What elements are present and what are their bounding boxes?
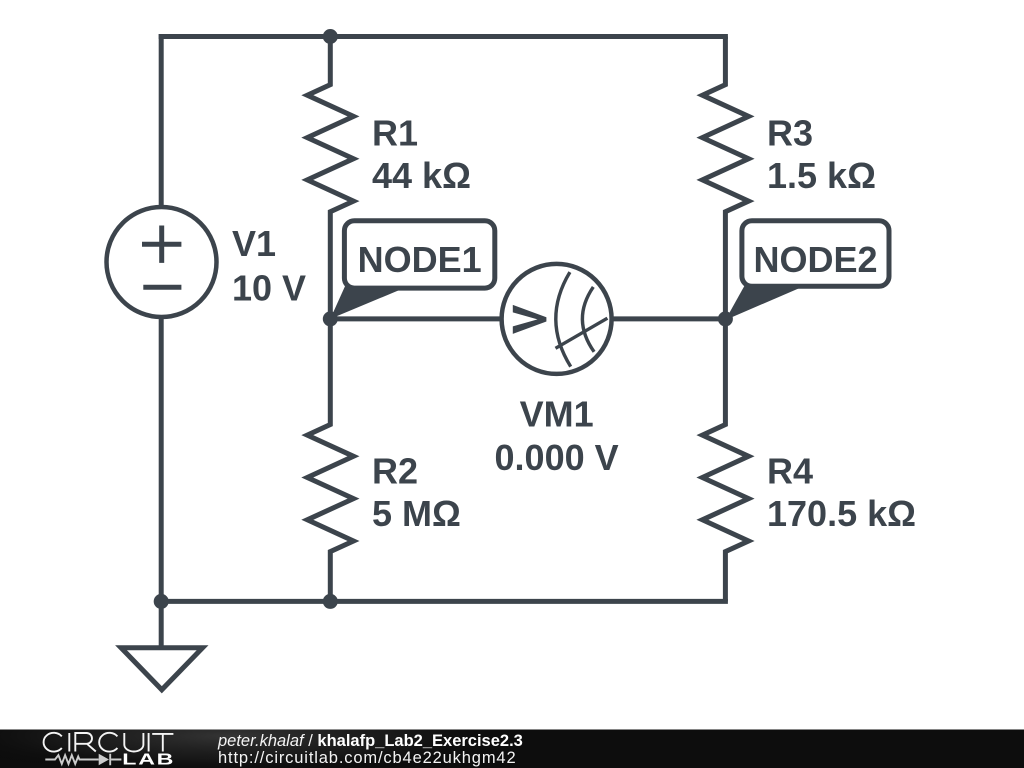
logo resistor-diode doodle — [45, 754, 121, 765]
svg-text:0.000 V: 0.000 V — [495, 437, 619, 478]
V1 minus mark — [143, 285, 181, 290]
VM1 meter needle — [556, 318, 608, 348]
junction dot bottom left — [154, 594, 169, 609]
resistor R1 — [307, 37, 353, 319]
junction dot node2 — [718, 311, 733, 326]
wire bottom rail — [161, 599, 725, 604]
resistor R4 — [702, 319, 748, 602]
resistor R3 — [702, 37, 748, 319]
svg-text:5 MΩ: 5 MΩ — [372, 493, 461, 534]
svg-text:VM1: VM1 — [520, 394, 594, 435]
wire left rail lower — [159, 319, 164, 602]
VM1 meter arc large — [556, 272, 571, 367]
VM1 body circle — [502, 264, 612, 374]
junction dot top — [323, 29, 338, 44]
V1 body circle — [107, 207, 217, 317]
CircuitLab logo word CIRCUIT (hand-drawn thin letters) — [44, 733, 174, 752]
node NODE1 balloon box — [344, 221, 494, 288]
footer bar — [0, 730, 1024, 768]
svg-text:1.5 kΩ: 1.5 kΩ — [767, 155, 876, 196]
VM1 meter arc small — [582, 287, 594, 352]
svg-text:170.5 kΩ: 170.5 kΩ — [767, 493, 916, 534]
wire left rail upper — [159, 37, 164, 206]
node NODE1 balloon — [330, 221, 495, 319]
svg-text:NODE2: NODE2 — [753, 239, 877, 280]
svg-text:R4: R4 — [767, 451, 813, 492]
V1 plus mark — [142, 226, 181, 263]
voltmeter VM1 — [502, 264, 612, 374]
VM1 chevron mark — [513, 305, 547, 334]
wire top rail — [161, 34, 725, 39]
ground stub wire — [159, 601, 164, 647]
resistor R2 — [307, 319, 353, 602]
svg-text:R2: R2 — [372, 451, 418, 492]
ground triangle — [121, 648, 203, 690]
node NODE2 balloon — [725, 221, 889, 320]
wire node1 to voltmeter — [330, 316, 500, 321]
svg-text:peter.khalaf / khalafp_Lab2_Ex: peter.khalaf / khalafp_Lab2_Exercise2.3 — [217, 732, 523, 750]
node NODE2 balloon box — [742, 221, 889, 287]
node NODE1 balloon tail — [330, 284, 409, 319]
svg-text:http://circuitlab.com/cb4e22uk: http://circuitlab.com/cb4e22ukhgm42 — [218, 749, 516, 767]
junction dot bottom R2 — [323, 594, 338, 609]
ground — [121, 601, 203, 689]
wire voltmeter to node2 — [613, 316, 725, 321]
svg-text:NODE1: NODE1 — [358, 239, 482, 280]
voltage source V1 — [107, 207, 217, 317]
svg-text:10 V: 10 V — [232, 268, 306, 309]
svg-text:R3: R3 — [767, 113, 813, 154]
svg-text:44 kΩ: 44 kΩ — [372, 155, 471, 196]
svg-text:LAB: LAB — [122, 751, 175, 768]
node NODE2 balloon tail — [725, 283, 802, 320]
junction dot node1 — [323, 311, 338, 326]
svg-text:V1: V1 — [232, 223, 276, 264]
svg-text:R1: R1 — [372, 113, 418, 154]
